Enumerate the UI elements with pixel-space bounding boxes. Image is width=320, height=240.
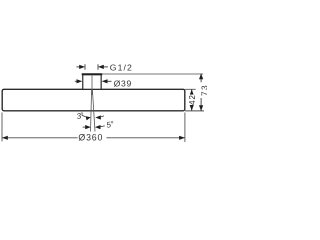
svg-text:Ø39: Ø39 (114, 79, 132, 89)
extension line from plate bottom to right (185, 110, 204, 112)
O360 dimension line (2, 137, 184, 139)
label 5 degrees (106, 119, 116, 129)
label O39 (114, 79, 132, 89)
G1/2 left arrow (76, 65, 85, 69)
spray line left (91, 90, 92, 132)
G1/2 right arrow (98, 65, 108, 69)
label 42 (188, 94, 197, 105)
dimension 42 bottom arrow (190, 105, 194, 111)
svg-text:Ø360: Ø360 (78, 133, 103, 143)
label O360 (78, 133, 103, 143)
label 73 (199, 82, 209, 98)
extension line from connector top to right (102, 73, 203, 75)
O360 left arrow (2, 136, 8, 140)
svg-text:5°: 5° (106, 119, 116, 129)
O360 extension line right (184, 113, 186, 143)
O39 right arrow (102, 79, 112, 83)
O360 extension line left (1, 113, 3, 142)
G1/2 extension tick right (97, 64, 99, 70)
connector body (83, 75, 101, 90)
dimension 42 top arrow (190, 89, 194, 95)
spray angle upper right arrow (95, 115, 104, 119)
O360 right arrow (179, 136, 185, 140)
dimension 73 top arrow (199, 73, 203, 79)
extension line from plate top to right (185, 88, 196, 90)
svg-text:73: 73 (201, 84, 207, 96)
dimension 42 line (191, 90, 193, 111)
label G1/2 (110, 63, 133, 73)
G1/2 extension tick left (84, 64, 86, 70)
svg-text:42: 42 (188, 94, 197, 105)
dimension 73 line (200, 74, 202, 111)
svg-text:G1/2: G1/2 (110, 63, 133, 73)
shower plate (side view) (2, 89, 185, 111)
center line through connector (91, 76, 93, 95)
dimension 73 bottom arrow (199, 105, 203, 111)
leader from 3 degrees to arrow (82, 115, 86, 117)
O39 left arrow (75, 79, 83, 83)
connector top flange (thick edge) (82, 73, 103, 75)
spray line right (92, 90, 95, 132)
spray angle lower left arrow (83, 125, 91, 129)
spray angle upper left arrow (86, 116, 91, 120)
spray angle lower right arrow (95, 125, 105, 129)
label 3 degrees (76, 111, 86, 121)
